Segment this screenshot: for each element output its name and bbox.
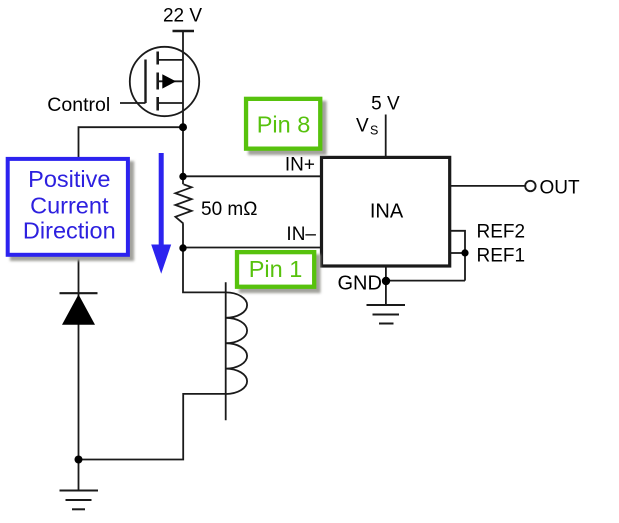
svg-text:S: S bbox=[370, 124, 378, 138]
svg-text:Positive: Positive bbox=[28, 166, 110, 192]
svg-text:Current: Current bbox=[30, 193, 109, 219]
svg-text:IN+: IN+ bbox=[285, 155, 315, 176]
svg-text:5 V: 5 V bbox=[371, 94, 400, 115]
svg-text:V: V bbox=[356, 116, 369, 137]
svg-text:50 mΩ: 50 mΩ bbox=[201, 199, 257, 220]
svg-text:IN–: IN– bbox=[286, 224, 316, 245]
svg-text:22 V: 22 V bbox=[163, 6, 202, 27]
svg-text:Direction: Direction bbox=[23, 218, 116, 244]
svg-text:Pin 1: Pin 1 bbox=[249, 256, 303, 282]
svg-text:INA: INA bbox=[370, 201, 404, 223]
svg-text:Pin 8: Pin 8 bbox=[257, 112, 311, 138]
svg-text:Control: Control bbox=[47, 94, 110, 116]
svg-text:REF1: REF1 bbox=[477, 246, 526, 267]
svg-text:GND: GND bbox=[338, 273, 382, 295]
svg-text:OUT: OUT bbox=[540, 178, 581, 199]
svg-text:REF2: REF2 bbox=[477, 222, 526, 243]
